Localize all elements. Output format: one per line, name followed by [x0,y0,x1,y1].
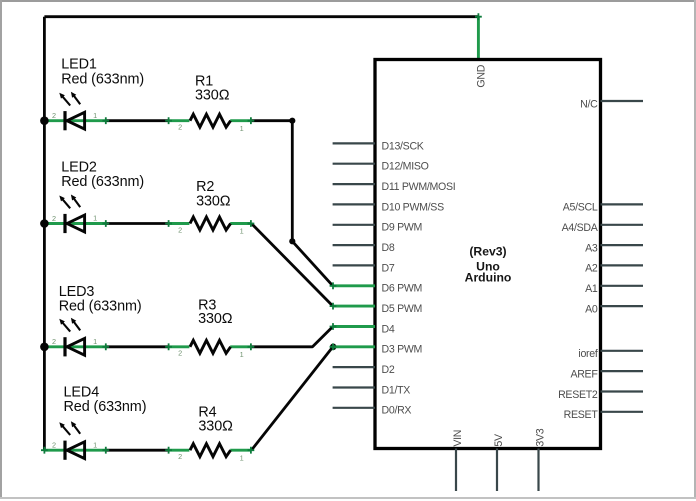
wire left vertical bus [43,17,46,451]
LED2 emission arrow [62,199,70,209]
pin 5V line [496,449,498,492]
wire R4 left lead (green) [169,449,190,452]
terminal cross pin D4 terminal [330,323,337,330]
pin A0 line [601,305,644,307]
pin RESET line [601,411,644,413]
LED2 triangle [67,215,85,232]
wire LED3 to R3 (black) [106,345,169,348]
wire R4 right lead (green) [230,449,251,452]
LED4 cathode bar [63,441,66,460]
svg-text:2: 2 [178,225,182,234]
terminal cross bus end LED4 [41,447,48,454]
svg-text:A1: A1 [585,283,598,295]
svg-text:2: 2 [178,123,182,132]
junction bus node LED3 [40,343,49,352]
wire LED2 to R2 (black) [106,222,169,225]
svg-text:D9 PWM: D9 PWM [382,222,423,234]
svg-text:D3 PWM: D3 PWM [382,344,423,356]
svg-text:D5 PWM: D5 PWM [382,303,423,315]
pin D3 PWM line [333,345,375,348]
LED1 emission arrow [62,96,70,106]
wire R1 to D6 PWM [251,121,333,286]
pin D6 PWM line [333,284,375,287]
svg-text:RESET: RESET [564,409,599,421]
svg-text:R2: R2 [196,179,214,195]
pin D5 PWM line [333,305,375,308]
pin VIN line [455,449,457,492]
terminal cross R2 pin1 wire end [248,220,255,227]
resistor body R4 zigzag [190,444,231,457]
resistor body R1 zigzag [190,114,231,127]
terminal cross R1 pin2 wire end [165,117,172,124]
wire LED4 row: bus to LED anode (green) [44,449,105,452]
wire LED1 row: bus to LED anode (green) [44,119,105,122]
LED3 emission arrow [62,322,70,332]
pin A5/SCL line [601,203,644,205]
resistor body R2 zigzag [190,217,231,230]
svg-text:D1/TX: D1/TX [382,384,411,396]
pin D13/SCK line [333,142,375,144]
pin D10 PWM/SS line [333,203,375,205]
svg-text:1: 1 [93,337,97,346]
svg-text:AREF: AREF [570,368,598,380]
LED4 emission arrow [73,425,80,434]
svg-text:A0: A0 [585,303,598,315]
svg-text:Red (633nm): Red (633nm) [61,174,144,190]
svg-text:D10 PWM/SS: D10 PWM/SS [382,201,445,213]
LED1 triangle [67,112,85,129]
svg-text:1: 1 [93,440,97,449]
svg-text:D11 PWM/MOSI: D11 PWM/MOSI [382,181,456,193]
pin D11 PWM/MOSI line [333,183,375,185]
terminal cross pin D6 PWM terminal [330,282,337,289]
svg-text:1: 1 [240,227,244,236]
svg-text:2: 2 [52,337,56,346]
wire LED4 to R4 (black) [106,449,169,452]
svg-text:D2: D2 [382,364,395,376]
LED4 emission arrow [62,425,70,435]
pin A3 line [601,244,644,246]
pin D1/TX line [333,386,375,388]
svg-text:Red (633nm): Red (633nm) [61,71,144,87]
svg-text:2: 2 [52,214,56,223]
terminal cross pin D5 PWM terminal [330,303,337,310]
bendpoint R1 wire bottom [289,238,295,244]
wire LED2 row: bus to LED anode (green) [44,222,105,225]
svg-text:D8: D8 [382,242,395,254]
svg-text:GND: GND [476,64,488,87]
terminal cross R3 pin2 wire end [165,343,172,350]
svg-text:N/C: N/C [580,98,598,110]
pin AREF line [601,370,644,372]
wire top GND bus [44,15,478,18]
svg-text:330Ω: 330Ω [198,419,233,435]
pin D0/RX line [333,407,375,409]
svg-text:1: 1 [240,350,244,359]
wire LED1 to R1 (black) [106,119,169,122]
LED4 triangle [67,442,85,459]
svg-text:3V3: 3V3 [535,428,547,446]
LED2 cathode bar [63,214,66,233]
svg-text:D4: D4 [382,323,395,335]
svg-text:330Ω: 330Ω [198,311,233,327]
wire R4 to D3 PWM [251,347,333,450]
svg-text:A3: A3 [585,242,598,254]
svg-text:A5/SCL: A5/SCL [563,202,598,214]
wire LED3 row: bus to LED anode (green) [44,345,105,348]
wire R2 to D5 PWM [251,224,333,307]
pin A4/SDA line [601,224,644,226]
svg-text:Red (633nm): Red (633nm) [64,399,147,415]
pin N/C line [601,100,644,102]
bendpoint R1 wire top [289,118,295,124]
wire R1 left lead (green) [169,119,190,122]
svg-text:ioref: ioref [578,348,597,360]
svg-text:LED1: LED1 [61,56,97,72]
svg-text:RESET2: RESET2 [558,389,598,401]
svg-text:2: 2 [52,441,56,450]
pin A1 line [601,285,644,287]
terminal cross LED3 pin1 end [102,343,109,350]
LED3 cathode bar [63,337,66,356]
svg-text:D7: D7 [382,262,395,274]
terminal cross LED2 pin1 end [102,220,109,227]
svg-text:Red (633nm): Red (633nm) [59,298,142,314]
pin 3V3 line [537,449,539,492]
svg-text:D0/RX: D0/RX [382,405,412,417]
terminal cross R3 pin1 wire end [248,343,255,350]
svg-text:(Rev3): (Rev3) [469,244,506,258]
resistor body R3 zigzag [190,340,231,353]
terminal cross R4 pin1 wire end [248,447,255,454]
pin A2 line [601,264,644,266]
terminal cross R1 pin1 wire end [248,117,255,124]
svg-text:1: 1 [93,214,97,223]
terminal cross R2 pin2 wire end [165,220,172,227]
pin D2 line [333,366,375,368]
svg-text:Arduino: Arduino [465,271,512,285]
terminal cross LED4 pin1 end [102,447,109,454]
junction D3 node [330,344,337,351]
svg-text:2: 2 [52,111,56,120]
svg-text:2: 2 [178,452,182,461]
svg-text:D12/MISO: D12/MISO [382,161,429,173]
IC U1 Arduino Uno body [375,60,601,449]
junction bus node LED1 [40,116,49,125]
wire R3 left lead (green) [169,345,190,348]
svg-text:2: 2 [178,349,182,358]
wire R3 to D4 [251,327,333,347]
LED3 triangle [67,338,85,355]
svg-text:1: 1 [240,124,244,133]
svg-text:D6 PWM: D6 PWM [382,283,423,295]
junction bus node LED2 [40,219,49,228]
svg-text:330Ω: 330Ω [195,87,230,103]
terminal cross GND top [475,13,482,20]
svg-text:A2: A2 [585,263,598,275]
terminal cross R4 pin2 wire end [165,447,172,454]
svg-text:D13/SCK: D13/SCK [382,140,424,152]
wire R2 left lead (green) [169,222,190,225]
pin D12/MISO line [333,163,375,165]
pin ioref line [601,350,644,352]
wire R3 right lead (green) [230,345,251,348]
LED3 emission arrow [73,321,80,330]
svg-text:330Ω: 330Ω [196,193,231,209]
pin D8 line [333,244,375,246]
svg-text:A4/SDA: A4/SDA [562,222,599,234]
wire GND drop (green) [477,17,480,61]
LED1 cathode bar [63,111,66,130]
terminal cross LED1 pin1 end [102,117,109,124]
wire R2 right lead (green) [230,222,251,225]
svg-text:5V: 5V [493,433,505,447]
pin RESET2 line [601,390,644,392]
pin D4 line [333,325,375,328]
pin D9 PWM line [333,224,375,226]
wire R1 right lead (green) [230,119,251,122]
svg-text:1: 1 [240,453,244,462]
LED1 emission arrow [73,95,80,104]
svg-text:VIN: VIN [452,430,464,447]
pin D7 line [333,264,375,266]
terminal cross pin D3 PWM terminal [330,343,337,350]
LED2 emission arrow [73,198,80,207]
svg-text:1: 1 [93,111,97,120]
